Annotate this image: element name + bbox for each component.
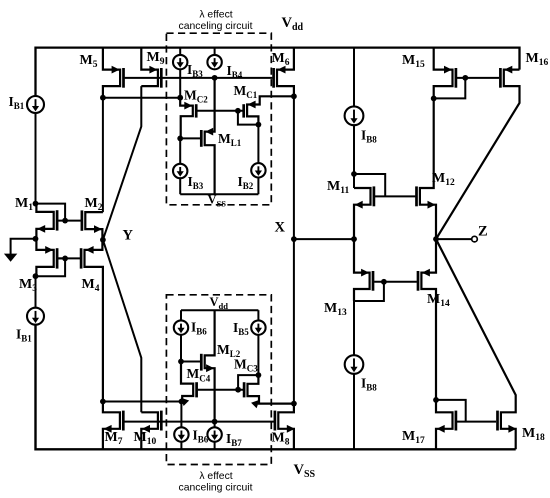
wire lower box Vdd rail	[181, 309, 258, 311]
transistor ML1	[205, 78, 215, 194]
node MC1 gate junction	[235, 108, 241, 114]
node M17 drain junction	[433, 397, 439, 403]
transistor M2	[85, 212, 103, 240]
node IB7 gate junction	[212, 419, 218, 425]
wire gate line M13-M14	[374, 281, 417, 283]
svg-text:Z: Z	[478, 224, 488, 240]
wire gate line MC4-MC3	[198, 389, 243, 391]
node X left junction	[291, 236, 297, 242]
current source IB5	[257, 310, 259, 320]
wire X node line	[294, 238, 354, 240]
transistor MC2	[180, 98, 193, 139]
wire M3-M4 gate line	[58, 257, 80, 259]
node X right junction	[351, 236, 357, 242]
current source IB2	[257, 125, 259, 164]
upper lambda-effect canceling circuit box	[166, 33, 271, 205]
svg-text:X: X	[275, 220, 286, 236]
transistor M15	[434, 48, 453, 99]
transistor M10	[141, 412, 158, 449]
wire M11 gate-drain tie	[354, 174, 385, 196]
transistor MC3	[248, 375, 294, 404]
wire M3 drain to IB1 bottom	[35, 276, 37, 308]
current source IB1 (bottom)	[27, 308, 44, 325]
node M3 drain-gate junction	[33, 273, 39, 279]
transistor M18	[436, 239, 516, 449]
transistor M13	[354, 239, 370, 301]
node M11 drain junction	[351, 171, 357, 177]
wire gate line M5-M9-M6	[125, 77, 273, 79]
node M3-M4 gate junction	[62, 256, 68, 262]
transistor M8	[278, 404, 294, 450]
svg-text:canceling circuit: canceling circuit	[179, 483, 253, 494]
transistor M7	[103, 402, 120, 450]
current source IB3 (upper)	[179, 48, 181, 55]
wire MC2 drain to ML1 gate	[180, 137, 200, 139]
wire gate line M11-M12	[375, 195, 415, 197]
transistor M4	[85, 240, 103, 402]
transistor M11	[354, 188, 371, 239]
svg-text:canceling circuit: canceling circuit	[179, 21, 253, 32]
transistor M5	[103, 48, 120, 98]
transistor M9	[141, 48, 158, 87]
current source IB8 (bottom)	[353, 301, 355, 355]
wire gate line M17-M18	[457, 421, 496, 423]
node M8 drain junction	[291, 401, 297, 407]
node Y	[100, 237, 106, 243]
node MC2 source junction	[177, 95, 183, 101]
node M6 drain junction	[291, 93, 297, 99]
wire Vss bottom rail	[36, 325, 516, 450]
wire gate line M15-M16	[457, 77, 499, 79]
transistor M6	[277, 48, 294, 97]
transistor M3	[36, 239, 53, 276]
transistor M12	[420, 98, 436, 239]
transistor MC1	[247, 96, 294, 124]
wire gate line MC2-MC1	[197, 110, 242, 112]
node M15 drain junction	[431, 96, 437, 102]
wire M2 drain to M5 drain	[102, 98, 104, 212]
current source IB4	[214, 48, 216, 55]
wire M17 gate-drain tie	[436, 400, 466, 422]
node MC1 drain junction	[256, 122, 262, 128]
transistor MC4	[181, 362, 193, 402]
ground input arrow	[11, 239, 36, 254]
wire gate line M7-M10-M8	[124, 421, 273, 423]
transistor M16	[436, 70, 520, 240]
wire MC3 gate-drain tie	[238, 375, 258, 390]
current source IB6 (upper)	[180, 310, 182, 320]
wire M5 drain to MC2 source	[103, 97, 180, 99]
node M1-M2 gate junction	[62, 218, 68, 224]
current source IB7	[214, 422, 216, 428]
wire MC1 gate-drain tie	[238, 111, 259, 125]
node M7 drain junction	[100, 399, 106, 405]
svg-text:Y: Y	[123, 228, 134, 244]
node MC3 gate junction	[235, 387, 241, 393]
node MC3 drain junction	[256, 372, 262, 378]
wire IB3 to MC2 source node	[179, 69, 181, 97]
node IB4 gate junction	[212, 75, 218, 81]
node ML1 gate junction	[177, 136, 183, 142]
wire upper box Vss rail	[180, 193, 258, 195]
node M13 gate junction	[381, 279, 387, 285]
wire M13 gate-drain tie	[354, 282, 384, 301]
current source IB6 (lower)	[180, 402, 182, 428]
transistor M1	[36, 204, 53, 239]
transistor ML2	[205, 310, 215, 421]
wire M6 drain down to X and M8	[293, 96, 295, 403]
current source IB8 (top)	[353, 48, 355, 107]
svg-text:λ effect: λ effect	[199, 10, 232, 21]
node M15 gate junction	[462, 75, 468, 81]
node M1 drain-gate junction	[33, 201, 39, 207]
wire M1-M2 gate line	[58, 220, 81, 222]
wire Z terminal lead	[436, 238, 472, 240]
wire Vdd top rail	[36, 48, 520, 96]
wire ML2 gate lead	[181, 361, 200, 363]
lower lambda-effect canceling circuit box	[166, 295, 271, 465]
wire M9 drain diagonal to Y	[103, 86, 141, 240]
node ML2 gate junction	[178, 359, 184, 365]
current source IB3 (lower)	[179, 138, 181, 163]
current source IB1 (top)	[27, 96, 44, 113]
node M5 drain junction	[100, 95, 106, 101]
wire M4 drain line to MC4 source	[103, 401, 181, 403]
svg-text:λ effect: λ effect	[199, 471, 232, 482]
node MC4 source junction	[179, 399, 185, 405]
transistor M14	[421, 239, 436, 400]
wire Y diagonal to M10 drain	[103, 240, 141, 412]
wire M15 gate-drain tie	[434, 78, 466, 99]
node Z junction	[433, 236, 439, 242]
node input summing node A	[33, 236, 39, 242]
transistor M17	[436, 400, 453, 449]
wire IB1 to M1 drain node	[35, 113, 37, 204]
